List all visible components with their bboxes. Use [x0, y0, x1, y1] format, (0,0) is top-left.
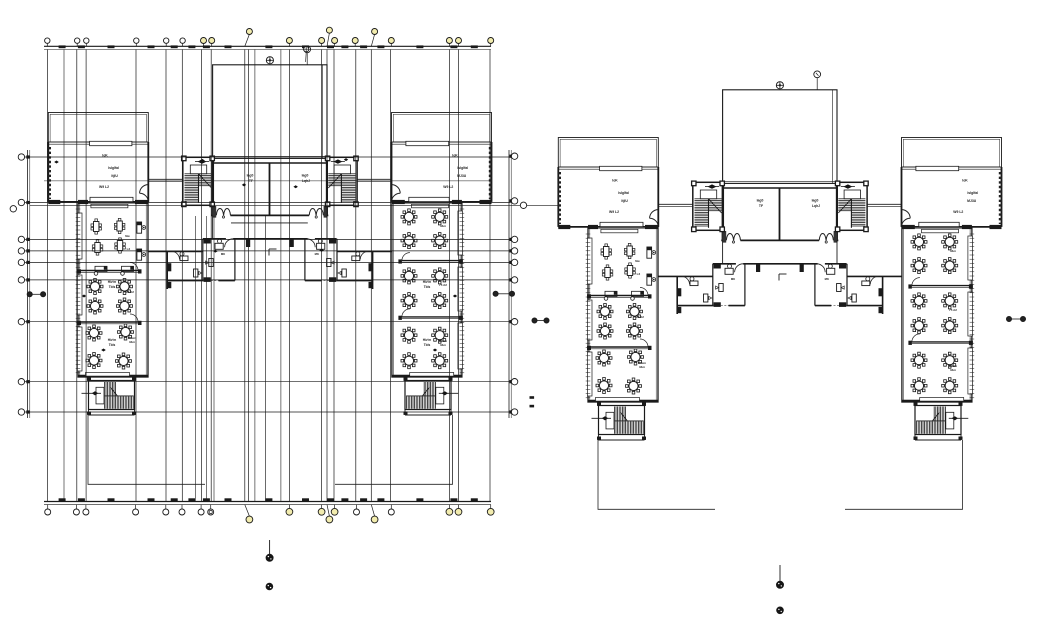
svg-text:Tbls: Tbls — [424, 285, 431, 289]
left plan classroom wing walls east — [392, 202, 464, 377]
right plan classroom 3 tables east — [911, 352, 958, 394]
left plan wing stair west — [82, 377, 137, 415]
right plan corridor lines — [658, 203, 693, 205]
top dimension bar — [44, 45, 491, 49]
right plan wing west — [558, 138, 658, 230]
svg-text:75 A2: 75 A2 — [949, 308, 957, 312]
svg-text:lag0: lag0 — [812, 199, 819, 203]
right plan classroom 3 tables west — [596, 349, 646, 394]
left plan foyer door west — [216, 208, 230, 215]
right plan benchmark circle — [814, 71, 821, 78]
left plan north symbol — [266, 57, 273, 64]
right plan wing stair west — [592, 402, 647, 440]
left plan courtyard corner mark — [269, 248, 277, 250]
right plan classroom 1 tables east — [911, 234, 958, 274]
left plan foyer walls — [211, 158, 328, 217]
svg-text:34m: 34m — [440, 224, 446, 228]
svg-text:75 A2: 75 A2 — [126, 290, 134, 294]
east grid bubbles — [509, 150, 527, 418]
horizontal grid lines — [30, 50, 559, 502]
right plan classroom 2 tables east — [911, 293, 958, 334]
vertical grid lines — [47, 50, 490, 502]
svg-text:lsIglfal: lsIglfal — [967, 191, 978, 195]
svg-text:34m: 34m — [129, 340, 135, 344]
left plan classroom 3 tables west — [86, 324, 136, 369]
svg-text:34m: 34m — [950, 249, 956, 253]
left plan terrace outline east — [335, 415, 453, 484]
svg-text:Hiv'm: Hiv'm — [108, 280, 117, 284]
svg-text:W9 L2: W9 L2 — [443, 185, 453, 189]
left plan foyer to office connector walls — [212, 215, 214, 238]
svg-text:lsIglfal: lsIglfal — [108, 166, 119, 170]
west grid bubbles — [10, 150, 30, 418]
left plan classroom 1 tables east — [401, 209, 448, 249]
svg-text:75 A2: 75 A2 — [636, 315, 644, 319]
right plan office block walls — [658, 263, 902, 314]
left plan stair tower west — [182, 156, 215, 207]
right plan classroom 2 tables west — [597, 304, 644, 340]
left plan office block walls — [148, 238, 392, 289]
left plan terrace outline west — [88, 415, 205, 484]
bottom yellow bubbles — [245, 505, 494, 523]
right plan wing east — [902, 138, 1002, 230]
top benchmark symbol — [304, 47, 309, 52]
right plan foyer door east — [819, 233, 833, 240]
left plan benchmark circle — [304, 46, 311, 53]
east section marker — [493, 291, 498, 296]
top yellow bubbles — [201, 27, 494, 46]
right plan office desks — [690, 264, 870, 302]
right plan terrace outline east — [845, 440, 963, 509]
right plan foyer walls — [721, 183, 838, 242]
svg-text:MJ3U: MJ3U — [967, 199, 977, 203]
svg-text:L2: L2 — [637, 272, 641, 276]
left plan wing east — [392, 113, 492, 205]
left plan classroom 2 tables east — [401, 268, 448, 309]
svg-text:MK: MK — [221, 252, 225, 256]
right plan stair tower west — [692, 181, 725, 232]
svg-text:MK: MK — [825, 277, 829, 281]
right plan east section marker — [1006, 316, 1011, 321]
right plan courtyard corner mark — [779, 273, 787, 275]
right plan terrace outline west — [598, 440, 715, 509]
svg-text:Nw: Nw — [635, 259, 640, 263]
section tick marks — [530, 396, 535, 399]
right plan wing stair east — [914, 402, 969, 440]
svg-text:Tbls: Tbls — [424, 343, 431, 347]
svg-text:Nw: Nw — [125, 234, 130, 238]
svg-text:lag0: lag0 — [302, 174, 309, 178]
svg-text:Hiv'm: Hiv'm — [423, 280, 432, 284]
left plan computer room tables west — [91, 218, 146, 275]
svg-text:lag0: lag0 — [757, 199, 764, 203]
svg-text:34m: 34m — [639, 365, 645, 369]
left plan room labels — [108, 280, 432, 347]
svg-text:lsIglfal: lsIglfal — [457, 166, 468, 170]
svg-text:loK: loK — [962, 179, 968, 183]
svg-text:Hiv'm: Hiv'm — [108, 338, 117, 342]
right plan classroom wing walls west — [586, 227, 658, 402]
left plan hall — [213, 65, 327, 159]
svg-text:75 A2: 75 A2 — [439, 283, 447, 287]
right plan hall — [723, 90, 837, 184]
left plan south arrow — [269, 540, 271, 554]
left plan wing stair east — [404, 377, 459, 415]
svg-text:W9 L2: W9 L2 — [99, 185, 109, 189]
left plan foyer door east — [309, 208, 323, 215]
left plan survey diamonds — [54, 158, 457, 351]
right plan south arrow — [779, 565, 781, 581]
svg-text:MK: MK — [315, 252, 319, 256]
right plan north symbol — [776, 82, 783, 89]
left plan classroom 3 tables east — [401, 327, 448, 369]
svg-text:ItjIU: ItjIU — [111, 174, 118, 178]
right plan foyer to office connector walls — [722, 240, 724, 263]
svg-text:34m: 34m — [440, 343, 446, 347]
left plan corridor lines — [148, 178, 183, 180]
svg-text:L2: L2 — [127, 247, 131, 251]
left plan wing west — [48, 113, 148, 205]
svg-text:lag0: lag0 — [247, 174, 254, 178]
left plan stair tower east — [325, 156, 358, 207]
right plan west section marker — [532, 318, 537, 323]
bottom dimension bar — [44, 498, 491, 504]
right plan classroom wing walls east — [902, 227, 974, 402]
svg-text:W9 L2: W9 L2 — [953, 210, 963, 214]
svg-text:LqhJ: LqhJ — [812, 204, 820, 208]
svg-text:loK: loK — [612, 179, 618, 183]
svg-text:Tbls: Tbls — [109, 285, 116, 289]
svg-text:ItjIU: ItjIU — [621, 199, 628, 203]
svg-text:MK: MK — [731, 277, 735, 281]
left plan classroom 2 tables west — [87, 279, 134, 315]
bottom white bubbles — [45, 505, 395, 515]
left plan classroom wing walls west — [76, 202, 148, 377]
right plan stair tower east — [835, 181, 868, 232]
svg-text:Hiv'm: Hiv'm — [423, 338, 432, 342]
right plan computer room tables west — [601, 243, 656, 300]
svg-text:Tbls: Tbls — [109, 343, 116, 347]
west section marker — [27, 292, 32, 297]
svg-text:34m: 34m — [950, 368, 956, 372]
top white bubbles — [45, 38, 186, 46]
svg-text:TF: TF — [759, 204, 763, 208]
svg-text:W9 L2: W9 L2 — [609, 210, 619, 214]
left plan office desks — [180, 239, 360, 277]
svg-text:lsIglfal: lsIglfal — [618, 191, 629, 195]
right plan foyer door west — [726, 233, 740, 240]
